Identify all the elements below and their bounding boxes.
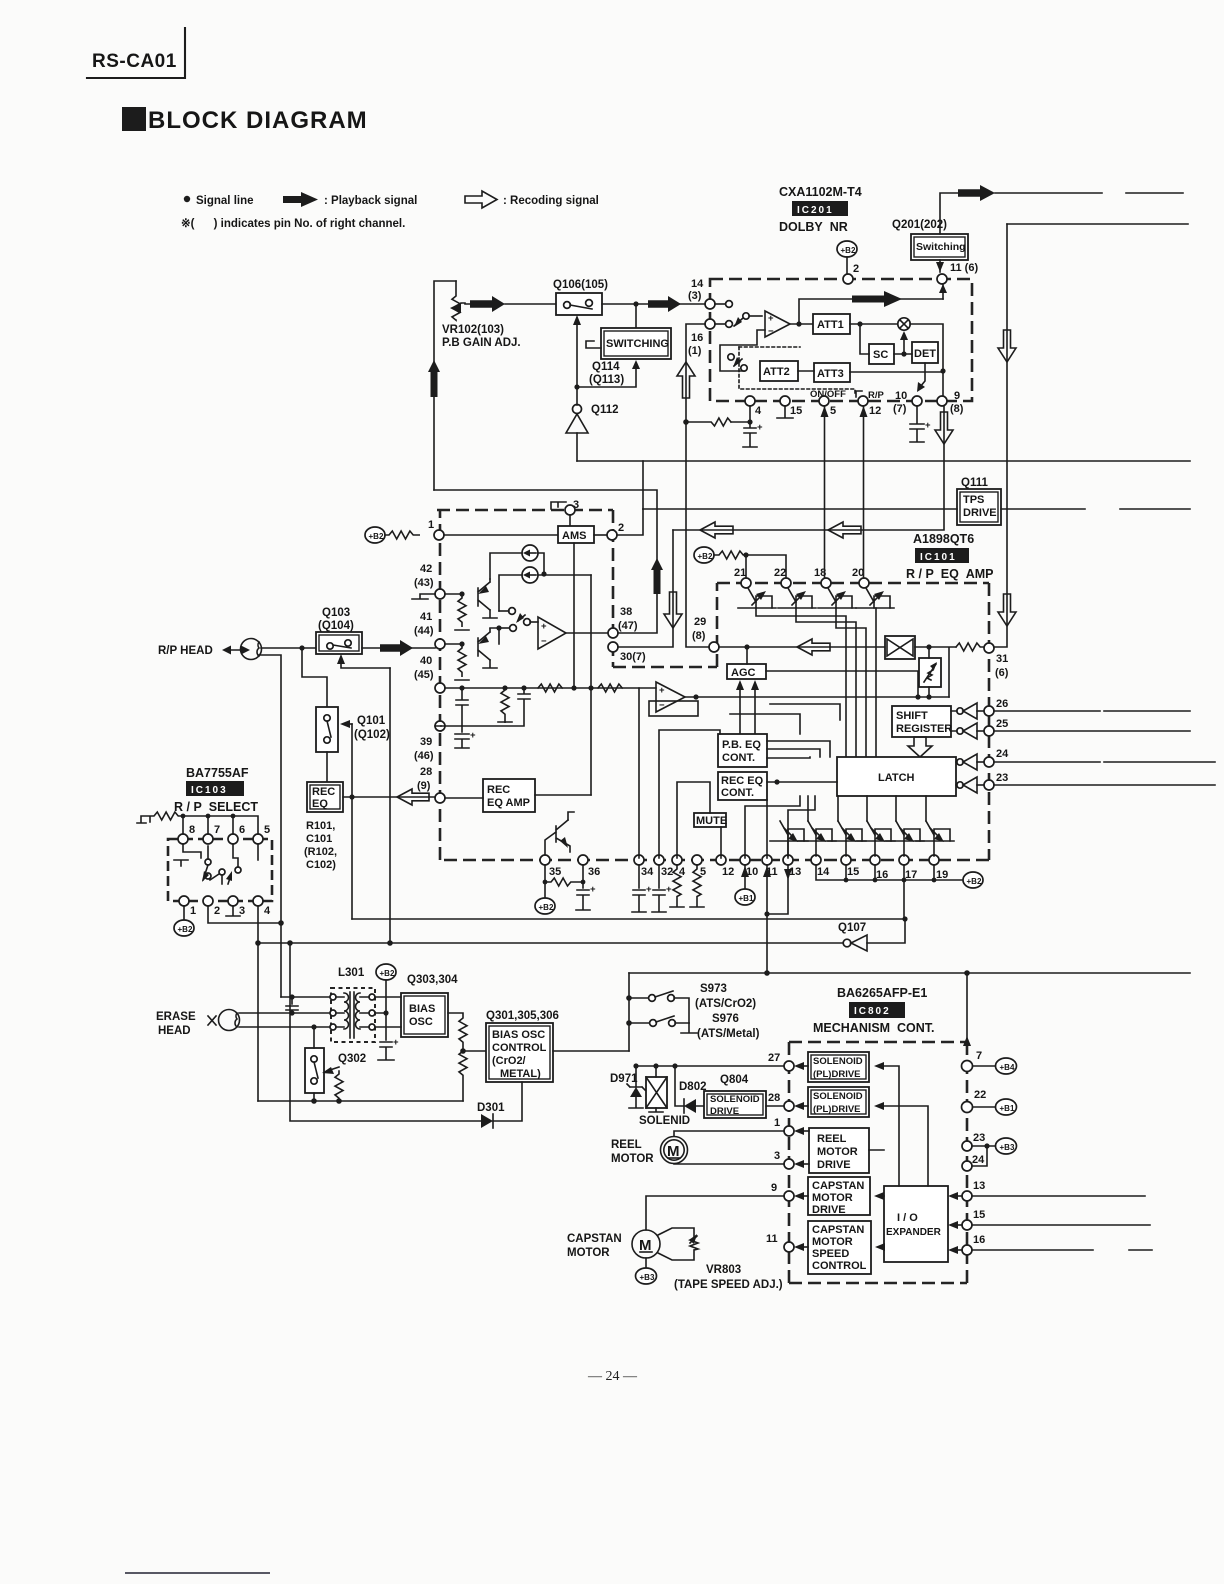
record head driver bowtie bbox=[885, 636, 915, 659]
svg-text:Q201(202): Q201(202) bbox=[892, 219, 947, 231]
pin 38 bbox=[608, 628, 618, 638]
svg-text:Q303,304: Q303,304 bbox=[407, 974, 458, 986]
right pin 22 bbox=[962, 1102, 973, 1113]
pin 28 bbox=[784, 1101, 794, 1111]
shaded arrow shift register to latch bbox=[908, 737, 932, 757]
svg-text:30(7): 30(7) bbox=[620, 651, 646, 663]
wire pin38 loop up to y490 bbox=[434, 490, 657, 633]
svg-text:Q301,305,306: Q301,305,306 bbox=[486, 1010, 559, 1022]
svg-text:(9): (9) bbox=[417, 780, 431, 792]
arrow SC node up into summing bbox=[903, 337, 905, 354]
svg-text:40: 40 bbox=[420, 655, 432, 667]
wire ic201 pin16 to x686 bbox=[686, 324, 705, 422]
svg-text:MUTE: MUTE bbox=[696, 815, 727, 827]
resistor on pin40 line bbox=[538, 684, 562, 692]
pin 34 bbox=[634, 855, 644, 865]
wire ATT2-ATT3 bbox=[798, 370, 814, 372]
pin 9m bbox=[784, 1191, 794, 1201]
wire pin29 node to AGC bbox=[746, 647, 748, 664]
D802 diode bbox=[675, 1066, 704, 1106]
svg-text:+B2: +B2 bbox=[178, 925, 193, 934]
pin29 output line to record head driver bbox=[719, 646, 885, 648]
svg-text:Q107: Q107 bbox=[838, 922, 866, 934]
pin 4 bbox=[253, 896, 263, 906]
svg-text:+: + bbox=[470, 730, 476, 741]
svg-text:−: − bbox=[768, 326, 774, 337]
svg-text:Signal line: Signal line bbox=[196, 195, 254, 207]
svg-text:26: 26 bbox=[996, 698, 1008, 710]
svg-text:DRIVE: DRIVE bbox=[812, 1204, 846, 1216]
+B2 bus for pins 14-19 bbox=[816, 865, 963, 880]
REC EQ AMP box bbox=[483, 779, 535, 812]
pin 15 bbox=[780, 396, 790, 406]
right pin 23 bbox=[962, 1141, 972, 1151]
internal contact at pin14 bbox=[715, 303, 725, 305]
I/O wires to solenoid drives bbox=[880, 1066, 899, 1186]
svg-text:D971: D971 bbox=[610, 1073, 638, 1085]
pin 2 bbox=[607, 530, 617, 540]
pin 6 bbox=[228, 834, 238, 844]
pin 29 bbox=[709, 642, 719, 652]
arrow box2 to pin28 bbox=[800, 1105, 808, 1107]
svg-text:REC EQ: REC EQ bbox=[721, 775, 764, 787]
svg-text:22: 22 bbox=[774, 567, 786, 579]
second top line bbox=[1007, 223, 1188, 225]
TPS input line bbox=[643, 508, 957, 510]
svg-text:16: 16 bbox=[973, 1234, 985, 1246]
head lower terminal drop bbox=[258, 655, 281, 997]
svg-text:29: 29 bbox=[694, 616, 706, 628]
svg-text:BIAS: BIAS bbox=[409, 1003, 435, 1015]
svg-text:2: 2 bbox=[618, 522, 624, 534]
ATT3 box bbox=[814, 363, 850, 382]
solenoid coil box bbox=[646, 1077, 667, 1108]
resistor 2 on pin40 line bbox=[598, 684, 622, 692]
pin23 output line bbox=[994, 784, 1215, 786]
svg-text:+B1: +B1 bbox=[1000, 1104, 1015, 1113]
svg-text:IC201: IC201 bbox=[797, 205, 834, 216]
svg-text:(ATS/CrO2): (ATS/CrO2) bbox=[695, 998, 756, 1010]
svg-text:R / P EQ AMP: R / P EQ AMP bbox=[906, 567, 994, 581]
wire ic201 pin5 down to pin18 bbox=[824, 406, 826, 578]
buffer to pin 25 bbox=[957, 728, 963, 734]
pin 11 bbox=[937, 274, 947, 284]
buffer to pin 23 bbox=[957, 782, 963, 788]
svg-text:S976: S976 bbox=[712, 1013, 739, 1025]
pin 7 bbox=[203, 834, 213, 844]
L301 transformer dashed box bbox=[331, 988, 375, 1042]
Q302 switch box bbox=[305, 1048, 324, 1093]
op-amp A1 bbox=[538, 617, 566, 649]
right pin 13 bbox=[962, 1191, 972, 1201]
switching input glyph bbox=[586, 341, 601, 348]
pin 1 bbox=[179, 896, 189, 906]
pin1 to +B2 bbox=[183, 906, 185, 920]
svg-text:REEL: REEL bbox=[817, 1133, 847, 1145]
svg-text:22: 22 bbox=[974, 1089, 986, 1101]
pin 14b bbox=[811, 855, 821, 865]
svg-text:IC802: IC802 bbox=[854, 1006, 891, 1017]
svg-text:28: 28 bbox=[420, 766, 432, 778]
open arrow left on pin29 line bbox=[797, 639, 830, 655]
svg-text:MOTOR: MOTOR bbox=[812, 1192, 853, 1204]
pin 1 bbox=[434, 530, 444, 540]
wire ic201 pin12 down to pin20 bbox=[863, 406, 865, 578]
wire Q114 control to switching bottom bbox=[577, 366, 636, 387]
transistor at pins35/36 bbox=[545, 820, 570, 858]
pin 11m bbox=[784, 1242, 794, 1252]
pin4 drop to Q107 line bbox=[257, 906, 259, 943]
Q103 switch box bbox=[316, 632, 362, 654]
svg-text:ATT1: ATT1 bbox=[817, 319, 844, 331]
svg-text:EQ AMP: EQ AMP bbox=[487, 797, 530, 809]
wire Q101 to REC EQ bbox=[326, 752, 328, 782]
pin 25 bbox=[984, 726, 994, 736]
svg-text:— 24 —: — 24 — bbox=[587, 1369, 638, 1384]
svg-text:CAPSTAN: CAPSTAN bbox=[812, 1180, 864, 1192]
svg-text:+B2: +B2 bbox=[698, 552, 713, 561]
svg-text:SOLENID: SOLENID bbox=[639, 1115, 690, 1127]
erase head symbol bbox=[219, 1010, 240, 1031]
wire REC EQ CONT to latch bbox=[767, 781, 837, 783]
Q112 transistor bbox=[573, 405, 582, 414]
svg-text:+B3: +B3 bbox=[640, 1273, 655, 1282]
pin 39 bbox=[435, 721, 445, 731]
pin4b resistor bbox=[670, 865, 684, 907]
current source 1 bbox=[522, 545, 538, 561]
svg-text:+B4: +B4 bbox=[1000, 1063, 1015, 1072]
svg-text:1: 1 bbox=[774, 1117, 780, 1129]
svg-text:(Q102): (Q102) bbox=[354, 729, 390, 741]
pin 14 bbox=[705, 299, 715, 309]
svg-text:1: 1 bbox=[428, 519, 434, 531]
svg-text:A1898QT6: A1898QT6 bbox=[913, 532, 974, 546]
wire switching box to pin 11 bbox=[939, 260, 941, 272]
Q302 resistor to bottom line bbox=[314, 1071, 343, 1101]
switch transistor at pin20 bbox=[856, 588, 894, 608]
arrow reel drive to pin1 bbox=[800, 1130, 809, 1132]
SOLENOID DRIVE box bbox=[704, 1091, 766, 1118]
Q107 line lower bbox=[258, 942, 842, 944]
svg-text:9: 9 bbox=[771, 1182, 777, 1194]
pin 31 bbox=[984, 643, 994, 653]
pin 10b bbox=[740, 855, 750, 865]
SHIFT REGISTER box bbox=[892, 706, 951, 737]
pin24 output line bbox=[994, 761, 1215, 763]
svg-text:31: 31 bbox=[996, 653, 1008, 665]
IC103 badge bbox=[186, 781, 244, 796]
wire to pin 11 bbox=[942, 284, 944, 299]
wire ATT3 to DET loop bbox=[850, 371, 943, 373]
wire varR bottom to op-amp2 output bbox=[928, 687, 930, 697]
svg-text:: Recoding signal: : Recoding signal bbox=[503, 195, 599, 207]
svg-text:REC: REC bbox=[487, 784, 510, 796]
wire dot down to SWITCHING box bbox=[635, 304, 637, 328]
svg-text:39: 39 bbox=[420, 736, 432, 748]
svg-text:+B2: +B2 bbox=[380, 969, 395, 978]
svg-text:−: − bbox=[541, 636, 547, 647]
svg-text:6: 6 bbox=[239, 824, 245, 836]
playback thick arrow up on x=657 bbox=[651, 558, 663, 594]
AGC output right bbox=[766, 671, 918, 697]
op-amp output node bbox=[790, 323, 813, 325]
wire SC to DET bbox=[894, 353, 912, 355]
pin39 capacitor network bbox=[435, 688, 468, 726]
svg-text:20: 20 bbox=[852, 567, 864, 579]
bottom pin row: pin 35 bbox=[540, 855, 550, 865]
legend signal line bullet bbox=[184, 196, 190, 202]
BIAS OSC box bbox=[401, 993, 448, 1037]
svg-text:(CrO2/: (CrO2/ bbox=[492, 1055, 526, 1067]
pin 1m bbox=[784, 1126, 794, 1136]
svg-text:(TAPE SPEED ADJ.): (TAPE SPEED ADJ.) bbox=[674, 1279, 783, 1291]
svg-text:35: 35 bbox=[549, 866, 561, 878]
svg-text:CAPSTAN: CAPSTAN bbox=[567, 1233, 622, 1245]
riser rec line to q107 line bbox=[351, 724, 353, 919]
pin 27 bbox=[784, 1061, 794, 1071]
svg-text:4: 4 bbox=[755, 405, 762, 417]
arrow speed control to pin11 bbox=[800, 1246, 808, 1248]
svg-text:CAPSTAN: CAPSTAN bbox=[812, 1224, 864, 1236]
bypass cap to ground bbox=[378, 1013, 394, 1060]
svg-text:28: 28 bbox=[768, 1092, 780, 1104]
pin13b arrow down bbox=[784, 869, 792, 880]
Q106 switch box bbox=[556, 293, 602, 315]
P.B. EQ CONT box bbox=[718, 734, 767, 767]
svg-text:10: 10 bbox=[895, 390, 907, 402]
svg-text:5: 5 bbox=[830, 405, 836, 417]
+B2 supply above transformer bbox=[376, 964, 396, 980]
latch output transistors row bbox=[770, 821, 808, 856]
electrolytic cap at pin 39 bbox=[441, 726, 469, 748]
svg-text:R/P HEAD: R/P HEAD bbox=[158, 645, 213, 657]
svg-text:D802: D802 bbox=[679, 1081, 707, 1093]
pin 5 bbox=[819, 396, 829, 406]
op-amp A2 output line bbox=[685, 696, 929, 698]
top playback output arrow bbox=[958, 185, 995, 201]
pin42 ground bbox=[412, 594, 435, 599]
pin15 ground bbox=[777, 406, 793, 418]
svg-text:13: 13 bbox=[973, 1180, 985, 1192]
BIAS OSC CONTROL box bbox=[486, 1023, 553, 1082]
svg-text:(PL)DRIVE: (PL)DRIVE bbox=[813, 1104, 861, 1115]
svg-text:P.B. EQ: P.B. EQ bbox=[722, 739, 761, 751]
pin 5b bbox=[692, 855, 702, 865]
pin4 external resistor bbox=[731, 406, 750, 422]
pin 17b bbox=[899, 855, 909, 865]
svg-text:2: 2 bbox=[214, 905, 220, 917]
svg-text:3: 3 bbox=[774, 1150, 780, 1162]
open arrow left 1 on y530 bbox=[700, 522, 733, 538]
svg-text:+B2: +B2 bbox=[967, 877, 982, 886]
ground line under Q302 bbox=[258, 1100, 463, 1102]
Q302 arrow bbox=[327, 1067, 339, 1071]
arrow reel drive to pin3 bbox=[800, 1163, 809, 1165]
svg-text:MOTOR: MOTOR bbox=[567, 1247, 610, 1259]
switch transistor at pin18 bbox=[818, 588, 856, 608]
svg-text:14: 14 bbox=[817, 866, 830, 878]
variable resistor box bbox=[919, 658, 941, 687]
right pin 7 bbox=[962, 1061, 973, 1072]
switch arm to op-amp bbox=[743, 313, 749, 319]
wires P.B EQ to latch bbox=[767, 741, 830, 757]
svg-text:ATT3: ATT3 bbox=[817, 368, 844, 380]
playback thick arrow up on x=434 bbox=[428, 360, 440, 397]
pin3 ground bbox=[226, 906, 240, 916]
svg-text:IC103: IC103 bbox=[191, 785, 228, 796]
IC201 dashed outline bbox=[710, 279, 972, 401]
long line y461 bbox=[577, 460, 1190, 462]
dotted control path bbox=[739, 347, 855, 394]
svg-text:(43): (43) bbox=[414, 577, 434, 589]
pin 3 switch glyph bbox=[551, 502, 566, 509]
feed line from bias control up to bus bbox=[628, 973, 630, 1051]
svg-text:OSC: OSC bbox=[409, 1016, 433, 1028]
reel motor symbol bbox=[661, 1137, 688, 1164]
pin16m output line bbox=[972, 1249, 1152, 1251]
IC802 badge bbox=[849, 1002, 905, 1018]
S976 switch bbox=[629, 1022, 649, 1024]
transformer secondary bbox=[369, 994, 375, 1000]
svg-text:※( ) indicates pin No. of: ※( ) indicates pin No. of right channel. bbox=[181, 217, 405, 230]
svg-text:Q804: Q804 bbox=[720, 1074, 749, 1086]
svg-text:36: 36 bbox=[588, 866, 600, 878]
top output line right bbox=[995, 192, 1183, 194]
arrow capstan drive to pin9 bbox=[800, 1195, 808, 1197]
svg-text:REEL: REEL bbox=[611, 1139, 642, 1151]
pin 15b bbox=[841, 855, 851, 865]
erase head wires bbox=[239, 1012, 331, 1014]
vertical from line2 down to pin31 bbox=[994, 224, 1007, 647]
input transistor Q a bbox=[445, 593, 462, 595]
AMS box bbox=[558, 526, 594, 543]
svg-text:16: 16 bbox=[691, 332, 703, 344]
solenoid feed line bbox=[636, 1065, 784, 1067]
buffer to pin 24 bbox=[957, 759, 963, 765]
I/O wire to reel drive bbox=[869, 1149, 884, 1151]
svg-text:METAL): METAL) bbox=[500, 1068, 541, 1080]
svg-text:+: + bbox=[659, 685, 665, 696]
svg-text:+: + bbox=[925, 420, 931, 431]
resistor to pin 31 bbox=[956, 643, 984, 651]
TPS output line bbox=[1001, 508, 1190, 510]
pin 16b bbox=[870, 855, 880, 865]
svg-text:DRIVE: DRIVE bbox=[710, 1106, 739, 1117]
wire head to Q103 bbox=[261, 647, 316, 649]
svg-text:RS-CA01: RS-CA01 bbox=[92, 51, 177, 72]
IC103 dashed outline bbox=[168, 839, 272, 901]
CAPSTAN MOTOR DRIVE box bbox=[808, 1177, 870, 1215]
capstan +B3 bbox=[645, 1258, 647, 1268]
footer rule bbox=[125, 1572, 270, 1574]
I/O wire to capstan drive bbox=[880, 1195, 884, 1197]
svg-text:(Q113): (Q113) bbox=[589, 374, 624, 386]
svg-text:L301: L301 bbox=[338, 967, 365, 979]
output switch transistors under latch bbox=[798, 821, 954, 856]
REC EQ CONT box bbox=[718, 772, 767, 800]
AMS bottom vertical bbox=[573, 543, 575, 688]
svg-text:15: 15 bbox=[973, 1209, 985, 1221]
bundle from switches down to latch bbox=[756, 608, 846, 757]
wire head top feed bbox=[281, 996, 331, 998]
svg-text:ERASE: ERASE bbox=[156, 1011, 196, 1023]
svg-text:42: 42 bbox=[420, 563, 432, 575]
wire AMS to pin 2 bbox=[594, 534, 606, 536]
svg-text:11 (6): 11 (6) bbox=[950, 262, 978, 274]
svg-text:P.B GAIN ADJ.: P.B GAIN ADJ. bbox=[442, 337, 521, 349]
switch transistor at pin21 bbox=[738, 588, 776, 608]
pin 3 bbox=[565, 505, 575, 515]
+B1 supply m bbox=[973, 1106, 996, 1108]
capstan wire to pin9 bbox=[646, 1196, 784, 1230]
resistor to pin 1 bbox=[385, 531, 419, 539]
svg-text:12: 12 bbox=[722, 866, 734, 878]
svg-text:8: 8 bbox=[189, 824, 195, 836]
svg-text:+B2: +B2 bbox=[369, 532, 384, 541]
svg-text:+: + bbox=[590, 884, 596, 895]
svg-text:+B2: +B2 bbox=[539, 903, 554, 912]
pin 11b bbox=[762, 855, 772, 865]
svg-text:(44): (44) bbox=[414, 625, 434, 637]
wire ATT1 node to SC bbox=[860, 324, 869, 354]
svg-text:24: 24 bbox=[972, 1154, 985, 1166]
svg-text:SHIFT: SHIFT bbox=[896, 710, 928, 722]
pin 5 bbox=[253, 834, 263, 844]
svg-text:+: + bbox=[666, 884, 672, 895]
svg-text:AGC: AGC bbox=[731, 667, 756, 679]
feedback loop wire bbox=[720, 330, 765, 371]
svg-text:CONTROL: CONTROL bbox=[812, 1260, 867, 1272]
switch contacts to op-amp 1 bbox=[509, 608, 516, 615]
switch common ground bbox=[681, 1023, 697, 1033]
transformer core bbox=[350, 992, 354, 1038]
svg-text:SPEED: SPEED bbox=[812, 1248, 849, 1260]
+B2 supply at pin2 bbox=[837, 241, 857, 257]
svg-text:IC101: IC101 bbox=[920, 552, 957, 563]
IC201 badge bbox=[792, 201, 848, 216]
bias control output bbox=[553, 1050, 629, 1052]
resistor +B2 to pin21 bbox=[714, 551, 746, 559]
svg-text:(3): (3) bbox=[688, 290, 702, 302]
pin 41 bbox=[435, 639, 445, 649]
I/O wire to speed control bbox=[881, 1246, 884, 1248]
pin4 capacitor to ground bbox=[743, 422, 757, 447]
pin 16 bbox=[705, 319, 715, 329]
arrow box1 to pin27 bbox=[800, 1065, 808, 1067]
legend playback arrow bbox=[283, 192, 318, 207]
pin35 resistor +B2 bbox=[545, 865, 583, 897]
pin10 capacitor to ground bbox=[910, 406, 924, 442]
ATT2 box bbox=[760, 361, 798, 381]
svg-text:DET: DET bbox=[914, 348, 936, 360]
pin 2 bbox=[203, 896, 213, 906]
svg-text:1: 1 bbox=[190, 905, 196, 917]
IC802 dashed outline bbox=[789, 1042, 967, 1283]
svg-text:TPS: TPS bbox=[963, 494, 984, 506]
DET output to pin10 bbox=[920, 363, 925, 387]
svg-text:BA6265AFP-E1: BA6265AFP-E1 bbox=[837, 986, 927, 1000]
pin 2 bbox=[843, 274, 853, 284]
svg-text:R/P: R/P bbox=[868, 390, 885, 401]
svg-text:(7): (7) bbox=[893, 403, 907, 415]
svg-text:+B3: +B3 bbox=[1000, 1143, 1015, 1152]
pin 26 bbox=[984, 706, 994, 716]
Q101 control arrow bbox=[346, 723, 352, 725]
resistor under pin41 bbox=[455, 644, 469, 680]
capstan motor winding VR803 bbox=[658, 1228, 698, 1260]
svg-text:C102): C102) bbox=[306, 859, 336, 871]
riser TPS line to y461 bbox=[642, 461, 644, 509]
